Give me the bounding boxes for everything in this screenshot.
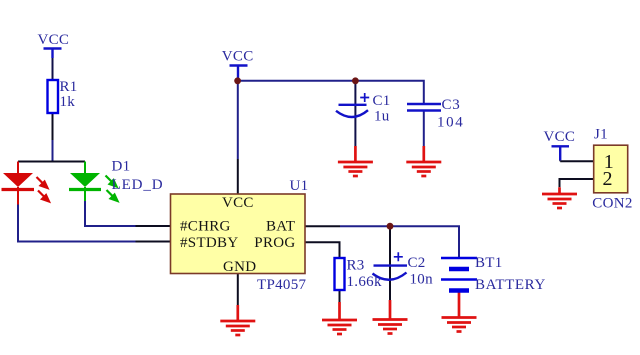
svg-text:R1: R1 (60, 79, 78, 95)
svg-text:J1: J1 (594, 127, 608, 143)
svg-text:VCC: VCC (222, 49, 254, 65)
svg-text:LED_D: LED_D (112, 177, 164, 193)
svg-text:104: 104 (437, 115, 464, 131)
svg-text:R3: R3 (347, 258, 365, 274)
svg-text:2: 2 (603, 168, 613, 190)
svg-text:10n: 10n (410, 272, 434, 288)
svg-text:1u: 1u (374, 109, 390, 125)
svg-text:PROG: PROG (254, 235, 295, 251)
svg-text:VCC: VCC (544, 129, 576, 145)
svg-text:C2: C2 (408, 255, 426, 271)
svg-text:U1: U1 (290, 178, 309, 194)
svg-text:CON2: CON2 (592, 196, 632, 212)
svg-text:C1: C1 (373, 93, 391, 109)
svg-text:C3: C3 (442, 97, 461, 113)
svg-text:BT1: BT1 (475, 255, 503, 271)
svg-text:#STDBY: #STDBY (180, 235, 238, 251)
svg-text:BATTERY: BATTERY (475, 277, 546, 293)
svg-text:#CHRG: #CHRG (180, 219, 231, 235)
svg-text:1.66k: 1.66k (347, 274, 382, 290)
svg-text:BAT: BAT (266, 219, 295, 235)
svg-text:GND: GND (223, 259, 256, 275)
svg-text:VCC: VCC (222, 195, 254, 211)
svg-text:VCC: VCC (38, 32, 70, 48)
svg-text:1k: 1k (60, 94, 76, 110)
svg-text:D1: D1 (112, 159, 131, 175)
svg-text:TP4057: TP4057 (257, 277, 307, 293)
